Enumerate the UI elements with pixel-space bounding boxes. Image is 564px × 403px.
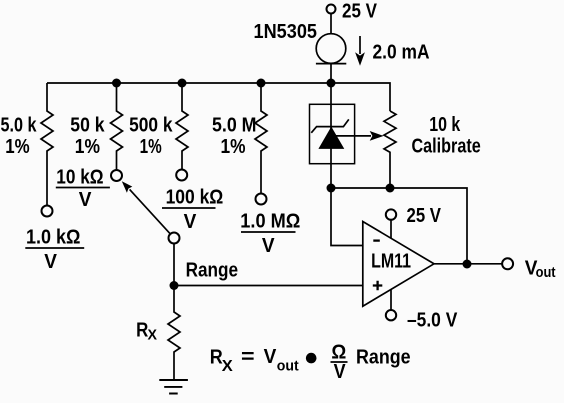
svg-text:out: out xyxy=(536,264,556,281)
svg-text:5.0 k: 5.0 k xyxy=(1,115,38,137)
svg-text:=: = xyxy=(241,346,255,368)
svg-text:V: V xyxy=(44,251,57,273)
svg-text:1%: 1% xyxy=(221,136,246,158)
svg-text:10 k: 10 k xyxy=(429,114,461,136)
svg-text:V: V xyxy=(184,211,197,233)
svg-text:X: X xyxy=(148,327,158,344)
svg-text:1%: 1% xyxy=(5,136,30,158)
svg-text:LM11: LM11 xyxy=(371,250,411,272)
svg-text:Calibrate: Calibrate xyxy=(412,136,481,158)
svg-text:Range: Range xyxy=(186,259,239,281)
svg-text:25 V: 25 V xyxy=(407,205,442,227)
svg-text:10 kΩ: 10 kΩ xyxy=(56,166,103,188)
svg-text:50 k: 50 k xyxy=(70,115,105,137)
svg-text:1%: 1% xyxy=(75,136,100,158)
svg-text:X: X xyxy=(222,358,234,375)
svg-text:2.0 mA: 2.0 mA xyxy=(373,42,430,64)
svg-text:V: V xyxy=(262,235,275,257)
svg-text:V: V xyxy=(79,189,92,211)
svg-text:25 V: 25 V xyxy=(342,1,378,23)
svg-text:1.0 kΩ: 1.0 kΩ xyxy=(26,227,81,249)
svg-text:V: V xyxy=(334,361,347,383)
svg-text:Range: Range xyxy=(356,347,411,369)
svg-text:5.0 M: 5.0 M xyxy=(212,115,257,137)
svg-text:1N5305: 1N5305 xyxy=(254,21,318,43)
svg-text:1%: 1% xyxy=(140,136,162,158)
svg-text:–5.0 V: –5.0 V xyxy=(407,310,458,332)
svg-text:500 k: 500 k xyxy=(129,115,173,137)
svg-text:1.0 MΩ: 1.0 MΩ xyxy=(240,211,300,233)
svg-text:out: out xyxy=(277,358,299,375)
svg-text:V: V xyxy=(264,346,277,368)
svg-text:100 kΩ: 100 kΩ xyxy=(166,187,224,209)
